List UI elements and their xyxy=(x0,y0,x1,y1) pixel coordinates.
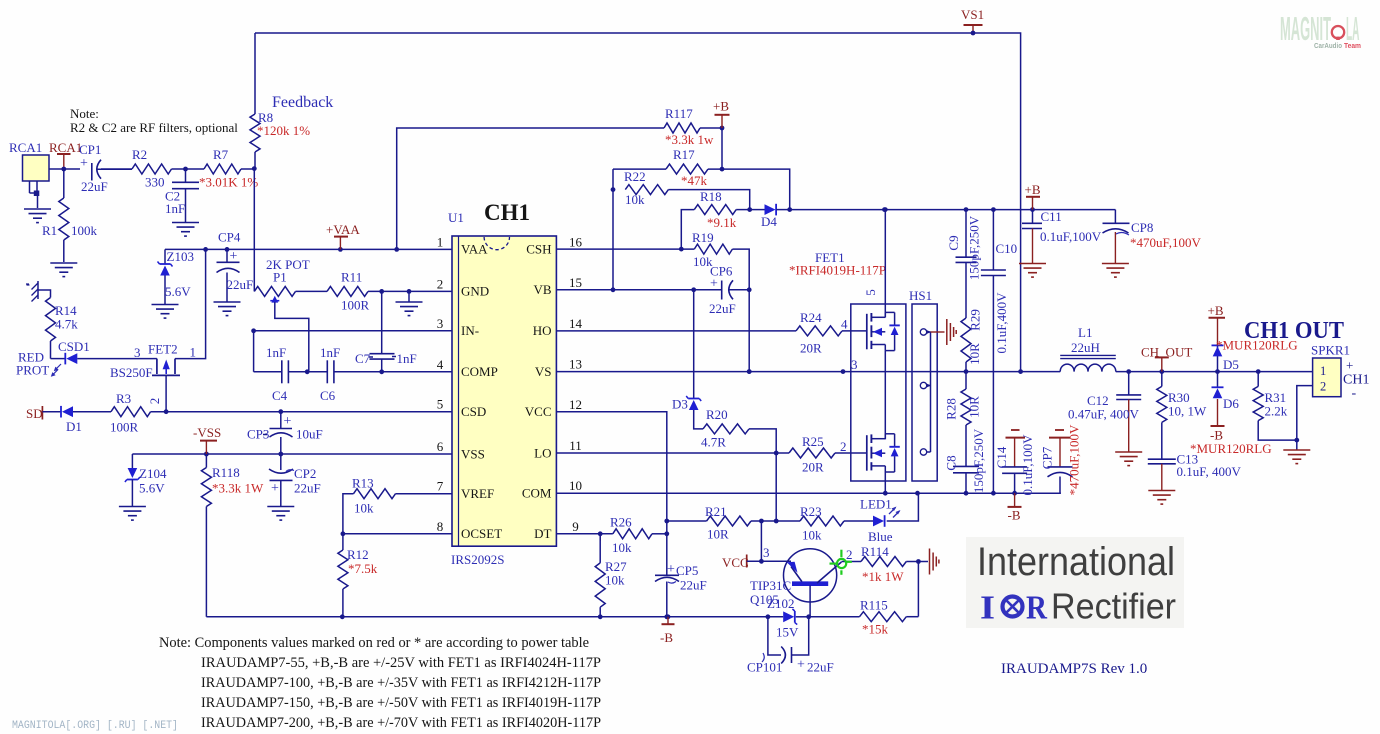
power port +B top xyxy=(713,99,730,129)
resistor R20 xyxy=(701,407,776,453)
svg-text:12: 12 xyxy=(569,397,582,412)
svg-text:*47k: *47k xyxy=(681,173,708,188)
wire junction to P1 xyxy=(253,169,255,291)
resistor R114 xyxy=(861,544,928,584)
resistor R25 xyxy=(789,434,867,475)
svg-text:10R: 10R xyxy=(967,396,982,418)
svg-text:+: + xyxy=(230,249,238,264)
transistor FET2 xyxy=(110,249,206,411)
resistor R7 xyxy=(199,147,258,190)
svg-text:R26: R26 xyxy=(610,515,632,530)
svg-text:HS1: HS1 xyxy=(909,288,932,303)
svg-text:2: 2 xyxy=(1320,380,1326,394)
wire RCA1 out xyxy=(49,168,80,170)
potentiometer P1 xyxy=(254,257,309,372)
svg-text:1nF: 1nF xyxy=(266,345,286,360)
wire CSD row pin5 xyxy=(151,409,452,414)
wire IN- row pin3 xyxy=(251,328,452,371)
svg-text:22uH: 22uH xyxy=(1071,340,1100,355)
svg-text:CSH: CSH xyxy=(526,242,551,257)
svg-text:+B: +B xyxy=(1025,182,1041,197)
svg-text:100R: 100R xyxy=(341,298,370,313)
svg-text:CH1: CH1 xyxy=(484,200,530,225)
wire VS row after L1 xyxy=(1116,369,1313,374)
power port +VAA xyxy=(326,222,360,249)
svg-text:R7: R7 xyxy=(213,147,229,162)
resistor R12 xyxy=(338,534,378,619)
svg-text:CP7: CP7 xyxy=(1040,446,1055,469)
resistor R11 xyxy=(296,270,453,313)
wire VAA row pin1 xyxy=(165,247,452,252)
svg-text:6: 6 xyxy=(437,439,444,454)
svg-text:*15k: *15k xyxy=(862,622,889,637)
svg-text:3: 3 xyxy=(437,316,444,331)
zener Z103 xyxy=(158,249,194,304)
svg-text:R18: R18 xyxy=(700,189,722,204)
svg-text:C14: C14 xyxy=(994,446,1009,468)
wire feedback to R117 xyxy=(397,128,664,249)
resistor R3 xyxy=(110,391,151,435)
svg-text:VAA: VAA xyxy=(461,242,488,257)
op-amp U1 IRS2092S body xyxy=(448,200,556,567)
svg-text:15: 15 xyxy=(569,275,582,290)
svg-text:IRAUDAMP7-150, +B,-B are +/-50: IRAUDAMP7-150, +B,-B are +/-50V with FET… xyxy=(201,695,601,711)
zener Z104 xyxy=(125,454,167,506)
capacitor CP1 xyxy=(79,142,132,194)
svg-text:14: 14 xyxy=(569,316,583,331)
net port CH_OUT xyxy=(1141,345,1192,372)
ground CP8 xyxy=(1102,264,1129,278)
svg-text:+: + xyxy=(710,277,718,292)
wire VCC pin12 xyxy=(556,412,669,619)
svg-text:22uF: 22uF xyxy=(294,481,321,496)
wire +B rail xyxy=(790,207,1116,212)
svg-text:I: I xyxy=(980,590,995,627)
resistor R19 xyxy=(556,230,751,374)
note power table xyxy=(159,635,601,731)
wire R7-R8 junction xyxy=(241,166,257,171)
ground C12 xyxy=(1115,452,1142,466)
wire DT row pin9 xyxy=(556,531,612,541)
svg-text:R21: R21 xyxy=(705,504,727,519)
zener Z102 xyxy=(767,596,811,640)
svg-text:R118: R118 xyxy=(212,465,240,480)
resistor R21 xyxy=(667,504,776,542)
svg-text:+: + xyxy=(667,562,675,577)
svg-text:1: 1 xyxy=(190,345,197,360)
transistor FET1 bottom mosfet xyxy=(867,434,900,472)
svg-text:C7: C7 xyxy=(355,351,371,366)
svg-text:R11: R11 xyxy=(341,270,362,285)
svg-text:20R: 20R xyxy=(802,460,824,475)
resistor R1 xyxy=(42,169,98,262)
svg-text:International: International xyxy=(977,540,1175,584)
svg-text:P1: P1 xyxy=(273,270,287,285)
capacitor C6 xyxy=(320,345,340,403)
svg-text:Team: Team xyxy=(1344,41,1361,50)
svg-text:0.1uF,400V: 0.1uF,400V xyxy=(994,292,1009,354)
diode D1 xyxy=(61,406,111,434)
label IRAUDAMP7S rev xyxy=(1001,661,1147,677)
svg-text:IRAUDAMP7S Rev 1.0: IRAUDAMP7S Rev 1.0 xyxy=(1001,661,1147,677)
svg-text:R12: R12 xyxy=(347,547,369,562)
svg-text:*7.5k: *7.5k xyxy=(348,561,378,576)
svg-text:CP101: CP101 xyxy=(747,660,782,675)
mosfet block FET1 box xyxy=(851,289,906,481)
svg-text:IRS2092S: IRS2092S xyxy=(451,552,504,567)
wire R8 top stub xyxy=(254,33,256,114)
svg-text:*MUR120RLG: *MUR120RLG xyxy=(1190,441,1272,456)
wire R2-R7 xyxy=(172,167,205,172)
probe marker green xyxy=(830,550,852,575)
svg-text:Note: Components values marked: Note: Components values marked on red or… xyxy=(159,635,589,651)
capacitor CP7 xyxy=(1040,424,1082,495)
wire feedback top rail xyxy=(255,33,1021,372)
heatsink HS1 xyxy=(909,288,937,481)
ground RCA1 xyxy=(24,196,51,223)
svg-text:R13: R13 xyxy=(352,476,374,491)
resistor R23 xyxy=(776,504,873,543)
svg-text:IRAUDAMP7-200, +B,-B are +/-70: IRAUDAMP7-200, +B,-B are +/-70V with FET… xyxy=(201,715,601,731)
wire R17-R22 vertical xyxy=(611,169,616,292)
svg-text:TIP31C: TIP31C xyxy=(750,578,791,593)
svg-text:LO: LO xyxy=(534,445,551,460)
resistor R117 xyxy=(664,106,724,147)
svg-text:D5: D5 xyxy=(1223,357,1239,372)
svg-text:10, 1W: 10, 1W xyxy=(1168,404,1207,419)
svg-text:RCA1: RCA1 xyxy=(9,140,42,155)
U1 left pin numbers xyxy=(437,234,444,533)
svg-text:4.7k: 4.7k xyxy=(55,317,78,332)
power port +B right xyxy=(1025,182,1041,210)
logo magnitola top xyxy=(1280,10,1361,50)
resistor R13 xyxy=(343,476,452,534)
svg-text:2.2k: 2.2k xyxy=(1265,404,1288,419)
svg-text:C8: C8 xyxy=(944,455,959,470)
svg-text:1: 1 xyxy=(1320,364,1326,378)
net port RCA1 xyxy=(49,140,82,171)
wire VB row pin15 xyxy=(556,287,721,292)
svg-text:U1: U1 xyxy=(448,210,464,225)
resistor R24 xyxy=(796,310,867,356)
ground C2 xyxy=(172,223,199,237)
svg-text:10k: 10k xyxy=(625,192,645,207)
svg-text:R19: R19 xyxy=(692,230,714,245)
svg-text:*3.3k 1W: *3.3k 1W xyxy=(212,481,264,496)
svg-text:100k: 100k xyxy=(71,223,98,238)
resistor R26 xyxy=(610,515,667,556)
svg-text:10k: 10k xyxy=(354,501,374,516)
svg-text:LED1: LED1 xyxy=(860,497,892,512)
svg-text:22uF: 22uF xyxy=(709,301,736,316)
svg-text:16: 16 xyxy=(569,234,583,249)
power port -B out xyxy=(1190,426,1272,456)
svg-text:D1: D1 xyxy=(66,419,82,434)
wire bottom rail xyxy=(206,614,783,619)
resistor R30 xyxy=(1157,372,1207,460)
svg-text:9: 9 xyxy=(572,519,579,534)
wire FET1 source bottom xyxy=(884,472,886,493)
svg-text:CarAudio: CarAudio xyxy=(1314,41,1342,50)
power port -VSS xyxy=(193,425,221,454)
capacitor C11 xyxy=(1022,209,1102,263)
svg-text:CP1: CP1 xyxy=(79,142,101,157)
wire LO row pin11 xyxy=(556,451,789,456)
svg-text:7: 7 xyxy=(437,479,444,494)
svg-text:CP5: CP5 xyxy=(676,563,698,578)
ground CP2 xyxy=(267,507,294,521)
wire COMP row pin4 xyxy=(254,369,452,374)
svg-text:VCC: VCC xyxy=(525,404,552,419)
svg-text:*3.01K 1%: *3.01K 1% xyxy=(199,175,258,190)
svg-text:-VSS: -VSS xyxy=(193,425,221,440)
note RF filters xyxy=(70,106,238,135)
svg-text:FET2: FET2 xyxy=(148,342,178,357)
wire SPKR1 pin2 xyxy=(1297,386,1313,450)
ground Z103 xyxy=(152,305,179,319)
capacitor C4 xyxy=(266,345,288,403)
wire FET1 mid xyxy=(884,351,886,440)
svg-text:IN-: IN- xyxy=(461,323,479,338)
capacitor C2 xyxy=(165,169,199,222)
svg-text:-B: -B xyxy=(1008,508,1021,523)
diode D3 xyxy=(672,290,703,429)
ground C13 xyxy=(1148,491,1175,505)
resistor R8 xyxy=(250,110,310,169)
svg-text:GND: GND xyxy=(461,284,489,299)
svg-text:SD: SD xyxy=(26,406,43,421)
svg-text:VS: VS xyxy=(535,364,552,379)
svg-text:3: 3 xyxy=(763,545,770,560)
svg-text:1nF: 1nF xyxy=(320,345,340,360)
wire LO to R23 xyxy=(774,453,779,523)
svg-text:R: R xyxy=(1026,590,1047,627)
svg-text:*9.1k: *9.1k xyxy=(707,215,737,230)
svg-text:10R: 10R xyxy=(967,343,982,365)
svg-text:*120k 1%: *120k 1% xyxy=(257,123,310,138)
svg-text:C9: C9 xyxy=(946,235,961,250)
wire +B to R17 xyxy=(720,128,725,172)
label CH1 OUT xyxy=(1244,318,1344,344)
ground R1 xyxy=(50,263,77,277)
capacitor CP3 xyxy=(247,412,323,454)
resistor R27 xyxy=(595,534,627,619)
resistor R18 xyxy=(679,189,752,252)
svg-text:COMP: COMP xyxy=(461,364,498,379)
svg-text:+VAA: +VAA xyxy=(326,222,360,237)
svg-text:+B: +B xyxy=(713,99,729,114)
svg-text:CH1: CH1 xyxy=(1343,373,1369,388)
svg-text:RCA1: RCA1 xyxy=(49,140,82,155)
svg-text:C10: C10 xyxy=(996,241,1018,256)
svg-text:3: 3 xyxy=(851,357,858,372)
led CSD1 xyxy=(51,339,154,377)
U1 right pin labels xyxy=(522,242,552,541)
svg-text:VCC: VCC xyxy=(722,555,749,570)
svg-text:VSS: VSS xyxy=(461,446,485,461)
svg-text:R3: R3 xyxy=(116,391,131,406)
svg-text:R20: R20 xyxy=(706,407,728,422)
capacitor C10 xyxy=(981,210,1017,494)
resistor R118 xyxy=(201,454,264,507)
svg-text:MAGNITOLA[.ORG] [.RU] [.NET]: MAGNITOLA[.ORG] [.RU] [.NET] xyxy=(12,720,178,732)
resistor R14 xyxy=(46,298,79,359)
capacitor CP101 xyxy=(747,617,834,675)
diode D4 xyxy=(750,204,790,229)
resistor R31 xyxy=(1253,372,1299,443)
svg-text:IRAUDAMP7-55, +B,-B are +/-25V: IRAUDAMP7-55, +B,-B are +/-25V with FET1… xyxy=(201,655,601,671)
ground CP4 xyxy=(214,302,241,316)
svg-text:20R: 20R xyxy=(800,341,822,356)
ground Z104 xyxy=(119,507,146,521)
svg-text:OCSET: OCSET xyxy=(461,526,502,541)
svg-text:Z103: Z103 xyxy=(167,249,194,264)
svg-text:D3: D3 xyxy=(672,397,688,412)
svg-text:HO: HO xyxy=(533,323,552,338)
svg-text:10k: 10k xyxy=(802,528,822,543)
capacitor CP6 xyxy=(709,264,749,317)
svg-text:DT: DT xyxy=(534,526,551,541)
capacitor C9 xyxy=(946,210,982,318)
connector RCA1 xyxy=(9,140,49,196)
svg-text:22uF: 22uF xyxy=(680,578,707,593)
capacitor C8 xyxy=(944,428,987,493)
svg-text:10: 10 xyxy=(569,478,582,493)
svg-text:C11: C11 xyxy=(1041,209,1062,224)
wire HO row pin14 xyxy=(556,330,796,332)
resistor R17 xyxy=(613,147,792,212)
svg-text:BS250F: BS250F xyxy=(110,365,153,380)
svg-text:0.1uF,100V: 0.1uF,100V xyxy=(1020,434,1035,496)
svg-text:PROT: PROT xyxy=(16,363,49,378)
chassis ground HS1 xyxy=(931,319,957,345)
capacitor CP4 xyxy=(217,230,254,302)
net port SD xyxy=(26,406,61,421)
transistor FET1 top mosfet xyxy=(867,312,900,350)
svg-text:+: + xyxy=(284,414,292,429)
resistor R28 xyxy=(944,372,982,467)
svg-text:4: 4 xyxy=(841,317,848,332)
svg-text:10k: 10k xyxy=(605,573,625,588)
wire FET1 drain top xyxy=(883,207,888,317)
svg-text:Note:: Note: xyxy=(70,106,99,121)
svg-text:1nF: 1nF xyxy=(165,201,185,216)
svg-text:22uF: 22uF xyxy=(227,277,254,292)
chassis ground R114 xyxy=(930,549,939,575)
svg-text:VB: VB xyxy=(533,282,551,297)
svg-text:4.7R: 4.7R xyxy=(701,435,726,450)
svg-text:L1: L1 xyxy=(1078,325,1092,340)
svg-text:Rectifier: Rectifier xyxy=(1051,586,1176,627)
svg-text:5.6V: 5.6V xyxy=(165,284,191,299)
svg-text:0.1uF,100V: 0.1uF,100V xyxy=(1040,229,1102,244)
svg-text:VREF: VREF xyxy=(461,486,494,501)
svg-text:*3.3k 1w: *3.3k 1w xyxy=(665,132,714,147)
svg-text:R17: R17 xyxy=(673,147,695,162)
connector SPKR1 xyxy=(1311,343,1369,402)
svg-text:R1: R1 xyxy=(42,223,57,238)
svg-text:R24: R24 xyxy=(800,310,822,325)
svg-text:*IRFI4019H-117P: *IRFI4019H-117P xyxy=(789,263,886,278)
svg-text:R23: R23 xyxy=(800,504,822,519)
svg-text:SPKR1: SPKR1 xyxy=(1311,343,1350,358)
svg-text:R2: R2 xyxy=(132,147,147,162)
capacitor C12 xyxy=(1068,372,1141,452)
power port -B mid xyxy=(660,617,675,645)
svg-text:0.47uF, 400V: 0.47uF, 400V xyxy=(1068,407,1139,422)
capacitor C13 xyxy=(1148,452,1242,491)
capacitor C7 xyxy=(355,291,417,371)
svg-text:150pF,250V: 150pF,250V xyxy=(971,428,986,493)
svg-text:CP4: CP4 xyxy=(218,230,241,245)
svg-text:R117: R117 xyxy=(665,106,693,121)
svg-text:*1k 1W: *1k 1W xyxy=(862,569,904,584)
wire CP1-R2 xyxy=(101,168,132,170)
svg-text:4: 4 xyxy=(437,357,444,372)
svg-text:IRAUDAMP7-100, +B,-B are +/-35: IRAUDAMP7-100, +B,-B are +/-35V with FET… xyxy=(201,675,601,691)
svg-text:10k: 10k xyxy=(612,540,632,555)
transistor Q105 xyxy=(750,547,861,617)
svg-text:CSD: CSD xyxy=(461,404,486,419)
svg-text:15V: 15V xyxy=(776,625,799,640)
svg-text:COM: COM xyxy=(522,486,552,501)
svg-text:Z102: Z102 xyxy=(767,596,794,611)
svg-text:*470uF,100V: *470uF,100V xyxy=(1130,235,1201,250)
ground pin2 xyxy=(396,291,423,315)
svg-text:8: 8 xyxy=(437,519,444,534)
inductor L1 xyxy=(1060,325,1116,372)
svg-text:100R: 100R xyxy=(110,420,139,435)
resistor R22 xyxy=(624,169,750,210)
capacitor CP8 xyxy=(1103,210,1202,263)
power port -B bottom xyxy=(1008,493,1022,522)
svg-text:22uF: 22uF xyxy=(81,179,108,194)
svg-text:CP8: CP8 xyxy=(1131,220,1153,235)
svg-text:11: 11 xyxy=(569,438,582,453)
chassis ground input xyxy=(26,281,51,302)
svg-text:R2 & C2 are RF filters, option: R2 & C2 are RF filters, optional xyxy=(70,120,238,135)
label FET1 xyxy=(789,250,886,278)
svg-text:2: 2 xyxy=(846,547,853,562)
wire R118 to bottom rail xyxy=(205,507,207,617)
svg-text:+: + xyxy=(80,156,88,171)
svg-text:2: 2 xyxy=(437,276,444,291)
svg-text:VS1: VS1 xyxy=(961,7,984,22)
U1 left pin labels xyxy=(461,242,502,541)
svg-text:C4: C4 xyxy=(272,388,288,403)
wire VSS row pin6 xyxy=(132,452,452,457)
svg-text:0.1uF, 400V: 0.1uF, 400V xyxy=(1177,464,1242,479)
svg-text:5: 5 xyxy=(863,289,878,296)
svg-text:2: 2 xyxy=(840,439,847,454)
svg-text:1nF: 1nF xyxy=(397,351,417,366)
svg-text:3: 3 xyxy=(134,345,141,360)
svg-text:CP6: CP6 xyxy=(710,264,733,279)
svg-text:13: 13 xyxy=(569,357,582,372)
svg-text:CSD1: CSD1 xyxy=(58,339,90,354)
logo International Rectifier xyxy=(966,537,1184,628)
led LED1 xyxy=(860,493,918,544)
svg-text:R28: R28 xyxy=(944,398,959,420)
svg-text:R22: R22 xyxy=(624,169,646,184)
svg-text:D4: D4 xyxy=(761,214,777,229)
wire R21 to VCC node xyxy=(759,521,764,564)
svg-text:R114: R114 xyxy=(861,544,889,559)
svg-text:10R: 10R xyxy=(707,527,729,542)
ground R31 xyxy=(1283,450,1310,464)
watermark magnitola bottom xyxy=(12,720,178,732)
svg-text:10uF: 10uF xyxy=(296,427,323,442)
